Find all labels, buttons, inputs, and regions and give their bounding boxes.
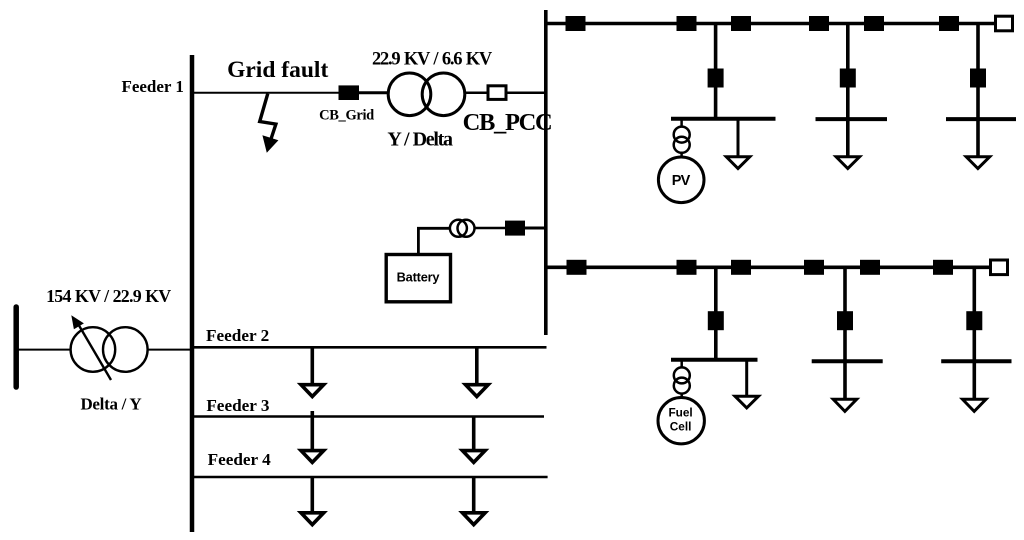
load arrow Feeder 2 branch 1 [301, 385, 324, 397]
breaker S2-2 on bus 2 [677, 260, 697, 275]
node 6.6KV distribution bus 1 (top horizontal) [546, 22, 996, 26]
wire bus 2 drop 2 (load feeder) [843, 267, 847, 399]
breaker S1-2 on bus 1 [677, 16, 697, 31]
breaker S1-5 on bus 1 [864, 16, 884, 31]
node drop 2 sub-bus bar [816, 117, 888, 121]
transformer fuel cell interconnection (two overlapping circles vertical) [674, 367, 690, 393]
node 6.6KV distribution bus 2 (lower horizontal) [546, 265, 991, 269]
svg-text:Y / Delta: Y / Delta [387, 129, 453, 151]
battery box [386, 255, 450, 302]
breaker S1-1 on bus 1 [566, 16, 586, 31]
load arrow Feeder 2 branch 2 [466, 385, 489, 397]
breaker on fuel cell feeder drop [708, 311, 724, 330]
load arrow on bus 2 drop 2 [833, 399, 857, 411]
wire PV sub-bus load branch [737, 119, 740, 157]
load arrow Feeder 3 branch 2 [462, 451, 485, 463]
wire Feeder 4 line [192, 476, 548, 479]
wire Feeder 2 line [192, 346, 547, 349]
wire Feeder 2 load branch 2 [475, 347, 479, 385]
wire bus 1 drop 2 (load feeder) [846, 24, 850, 158]
wire Feeder 3 load branch 1 [310, 411, 314, 451]
node PCC bus (vertical) [544, 10, 548, 335]
load arrow Feeder 4 branch 1 [301, 513, 324, 525]
svg-text:Fuel: Fuel [668, 406, 692, 420]
breaker S1-3 on bus 1 [731, 16, 751, 31]
grid fault lightning arrow [260, 94, 279, 153]
wire bus 1 drop 1 (PV feeder) [714, 24, 718, 119]
wire CB_Grid to transformer T2 [359, 91, 388, 94]
breaker on bus 1 drop 2 [840, 69, 856, 88]
breaker on bus 2 drop 2 [837, 311, 853, 330]
svg-text:Feeder 3: Feeder 3 [206, 396, 269, 415]
svg-text:Feeder 2: Feeder 2 [206, 326, 269, 345]
breaker on bus 2 drop 3 [966, 311, 982, 330]
transformer T2 22.9KV/6.6KV (two overlapping circles) [388, 73, 465, 116]
wire CB_PCC to PCC bus [506, 91, 546, 94]
wire Feeder 3 load branch 2 [472, 417, 476, 451]
wire Feeder 3 line [192, 415, 544, 418]
svg-text:Grid fault: Grid fault [227, 57, 328, 83]
svg-text:CB_Grid: CB_Grid [319, 108, 374, 124]
wire fuel cell transformer stub [680, 360, 683, 368]
breaker S1-4 on bus 1 [809, 16, 829, 31]
breaker S2-1 on bus 2 [567, 260, 587, 275]
node bus 2 drop 3 sub-bus bar [941, 359, 1011, 363]
node fuel cell sub-bus bar [671, 358, 758, 362]
breaker S2-3 on bus 2 [731, 260, 751, 275]
breaker on PV feeder drop [708, 69, 724, 88]
wire transformer to PV source [680, 153, 683, 158]
wire grid terminal to transformer T1 [16, 349, 71, 351]
wire transformer to fuel cell [680, 393, 683, 398]
load arrow on bus 1 drop 2 [836, 157, 860, 169]
wire Feeder 4 load branch 1 [310, 477, 314, 513]
breaker S1-6 on bus 1 [939, 16, 959, 31]
breaker on battery branch [505, 221, 525, 236]
breaker S2-4 on bus 2 [804, 260, 824, 275]
transformer T1 154KV/22.9KV (two overlapping circles) [71, 327, 148, 372]
svg-text:22.9 KV / 6.6 KV: 22.9 KV / 6.6 KV [372, 50, 493, 70]
fuel cell source circle [658, 398, 704, 444]
node bus 2 drop 2 sub-bus bar [812, 359, 883, 363]
wire bus 2 drop 1 (fuel cell feeder) [714, 267, 718, 360]
wire Feeder 2 load branch 1 [310, 347, 314, 385]
wire bus 1 drop 3 (load feeder) [976, 24, 980, 158]
circuit breaker CB_PCC (open, white square) [488, 86, 506, 100]
open switch at bus 1 right end (white square) [996, 16, 1013, 31]
wire transformer T1 to main bus [148, 349, 192, 351]
node grid-source terminal bar [13, 307, 19, 387]
load arrow on bus 1 drop 3 [966, 157, 990, 169]
transformer battery interconnection (two overlapping circles) [450, 220, 475, 237]
node drop 3 sub-bus bar [946, 117, 1016, 121]
svg-text:Feeder 1: Feeder 1 [121, 77, 183, 96]
wire battery breaker to transformer [475, 227, 506, 230]
label Fuel Cell [668, 406, 692, 434]
wire bus 2 drop 3 (load feeder) [972, 267, 976, 399]
wire PV transformer stub [680, 119, 683, 128]
load arrow on PV sub-bus [726, 157, 750, 169]
transformer PV interconnection (two overlapping circles vertical) [674, 127, 690, 153]
load arrow Feeder 4 branch 2 [462, 513, 485, 525]
load arrow on bus 2 drop 3 [963, 399, 987, 411]
breaker S2-5 on bus 2 [860, 260, 880, 275]
svg-text:PV: PV [672, 173, 691, 189]
PV source circle [658, 157, 704, 203]
wire fuel cell sub-bus load branch [745, 360, 748, 397]
circuit breaker CB_Grid (closed) [339, 85, 360, 100]
load arrow Feeder 3 branch 1 [301, 451, 324, 463]
node PV sub-bus bar [671, 117, 776, 121]
svg-text:Delta / Y: Delta / Y [80, 395, 141, 414]
svg-text:Battery: Battery [397, 269, 441, 284]
wire PCC bus to battery breaker [525, 227, 546, 230]
wire Feeder 4 load branch 2 [472, 477, 476, 513]
load arrow on fuel cell sub-bus [735, 396, 759, 408]
transformer T1 tap-changer arrow [71, 315, 111, 380]
node main 22.9KV bus (vertical) [190, 55, 195, 532]
breaker S2-6 on bus 2 [933, 260, 953, 275]
wire transformer to battery corner [418, 228, 450, 254]
svg-text:CB_PCC: CB_PCC [463, 109, 552, 136]
svg-text:Feeder 4: Feeder 4 [208, 450, 272, 469]
wire transformer T2 to CB_PCC [465, 91, 488, 94]
open switch at bus 2 right end (white square) [991, 260, 1008, 275]
breaker on bus 1 drop 3 [970, 69, 986, 88]
svg-text:154 KV / 22.9 KV: 154 KV / 22.9 KV [46, 286, 171, 306]
wire Feeder 1 bus to CB_Grid [192, 92, 339, 94]
svg-text:Cell: Cell [670, 420, 692, 434]
